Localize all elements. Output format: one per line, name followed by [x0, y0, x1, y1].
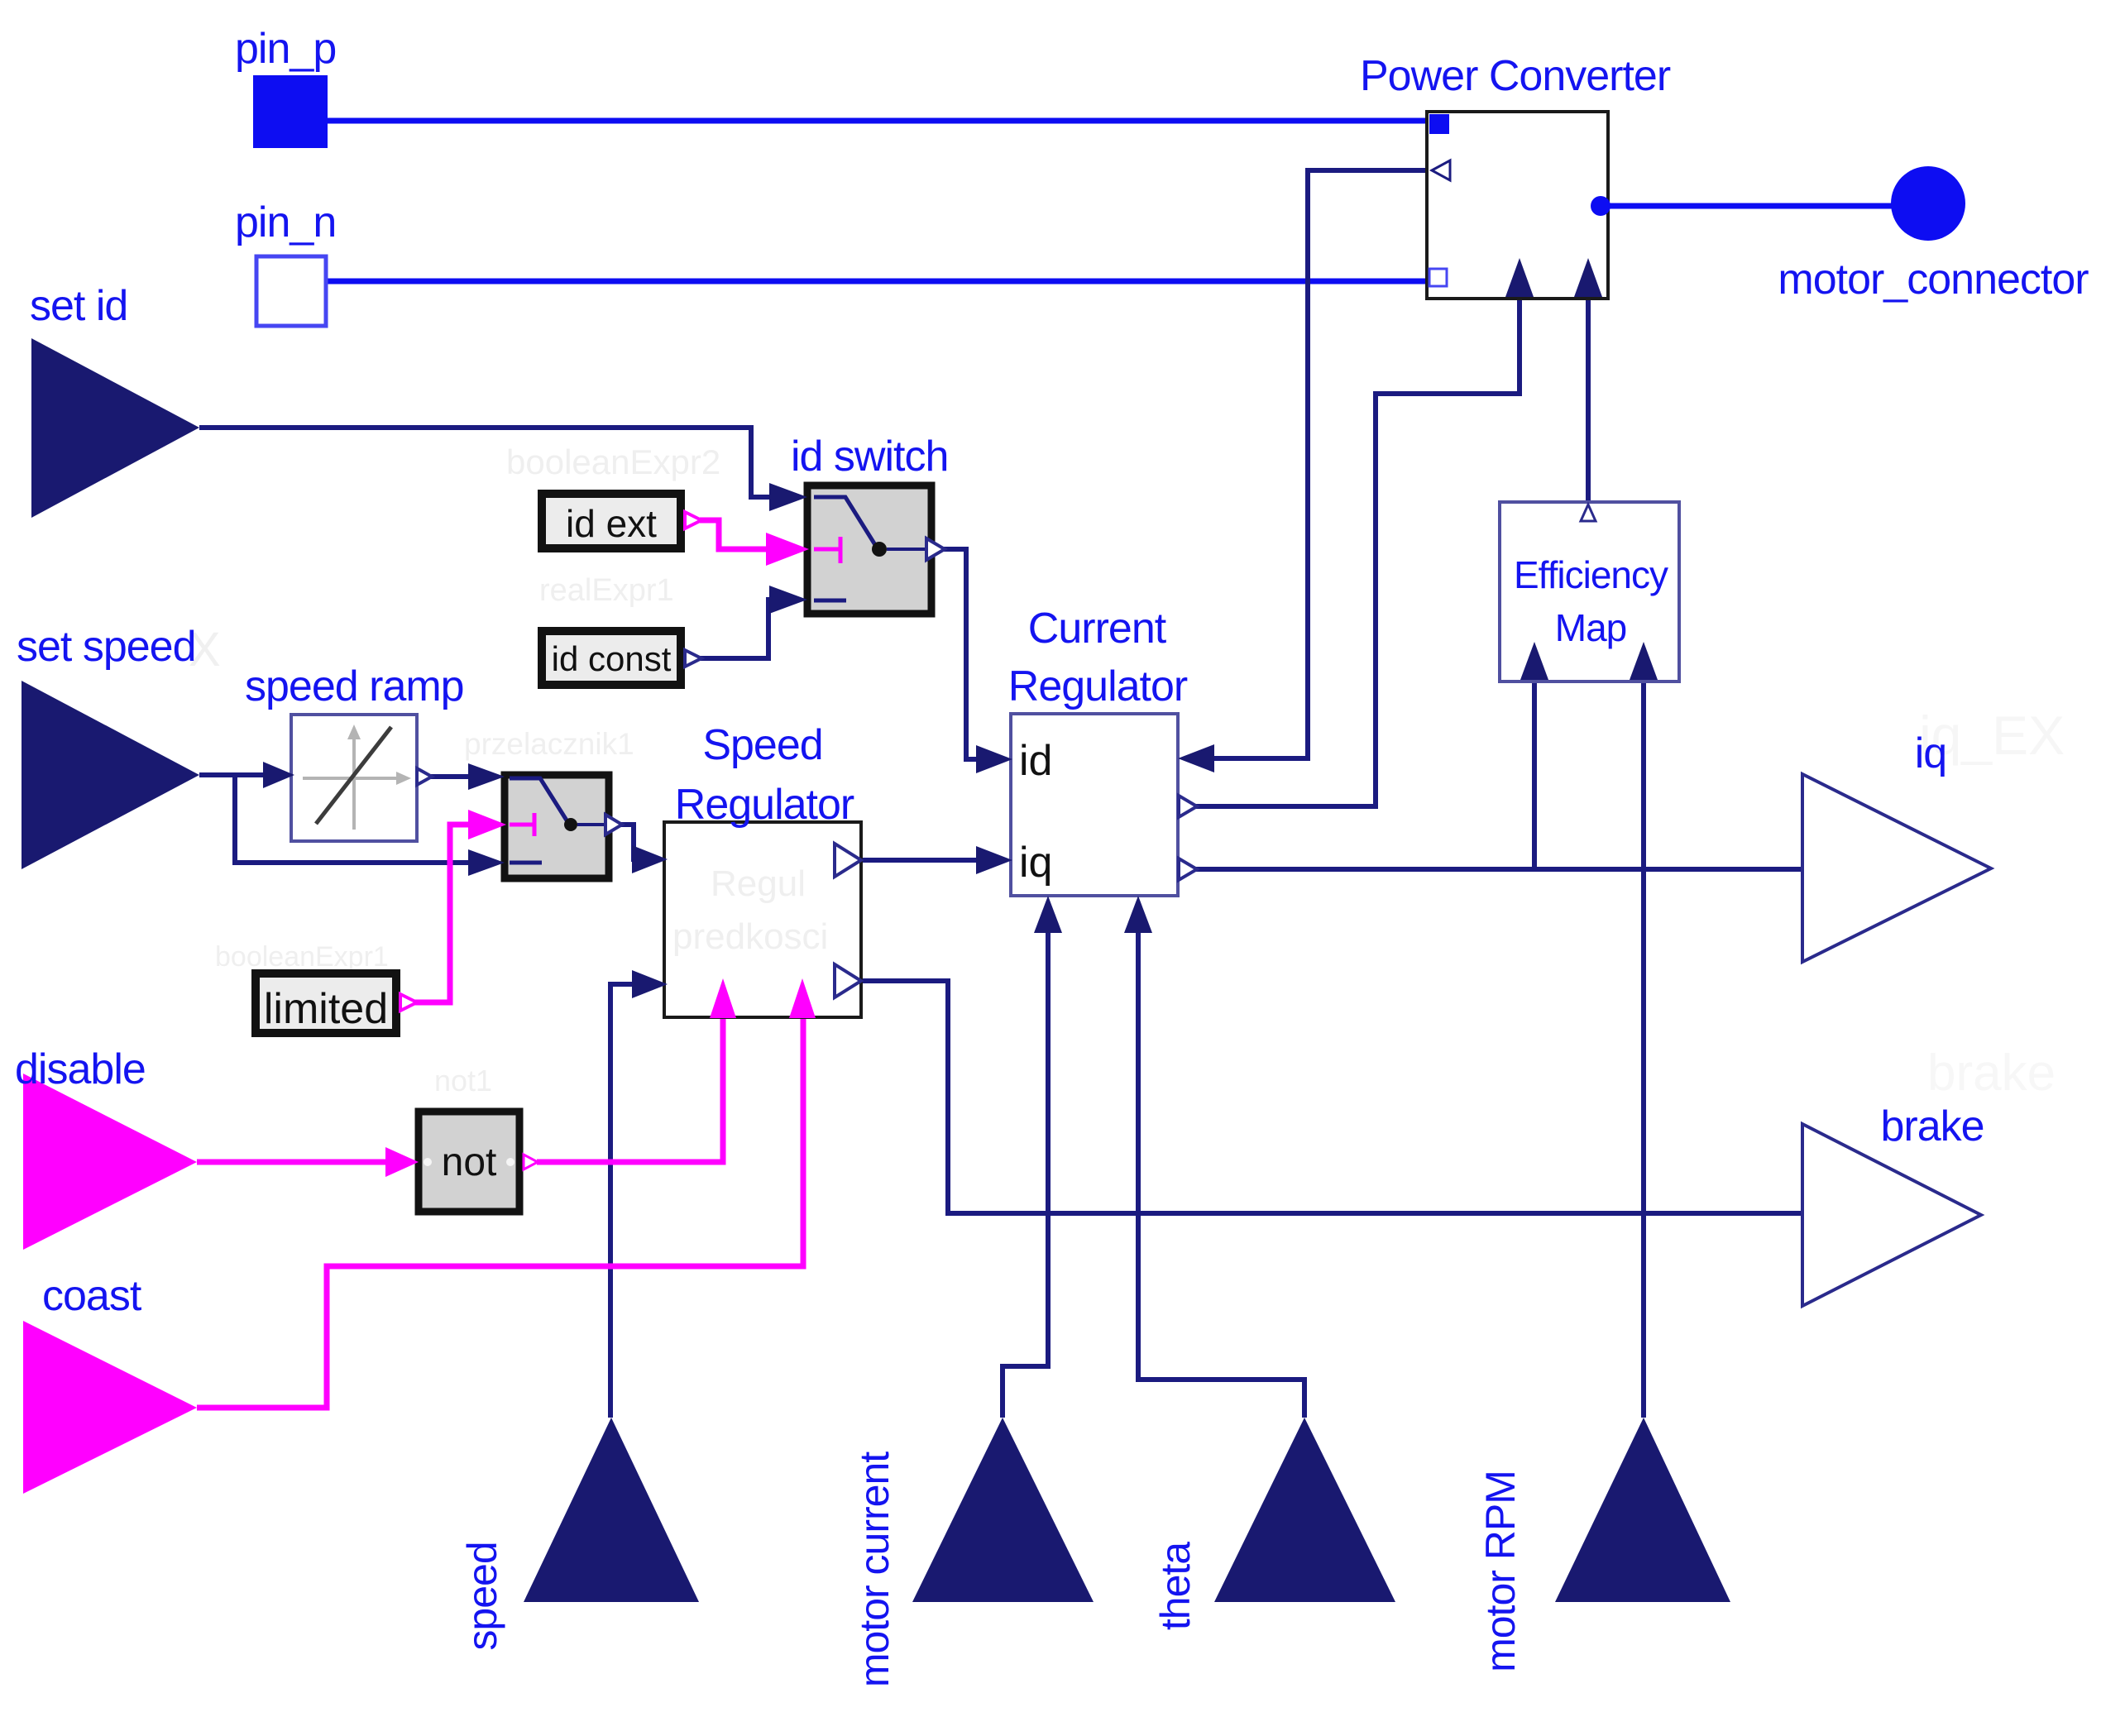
svg-text:motor current: motor current	[851, 1451, 897, 1687]
svg-text:booleanExpr1: booleanExpr1	[215, 941, 389, 973]
arrow into id switch middle input (magenta)	[766, 533, 809, 566]
svg-text:booleanExpr2: booleanExpr2	[506, 442, 720, 481]
block speed switch (gray box)	[505, 775, 609, 878]
port Speed Regulator output 2 (open triangle)	[835, 964, 861, 997]
wire speed to Speed Regulator lower-left input	[610, 984, 635, 1418]
svg-text:limited: limited	[264, 985, 388, 1033]
wire Power Converter left port to Current Regulator right input	[1208, 170, 1432, 758]
svg-text:motor RPM: motor RPM	[1477, 1471, 1524, 1672]
wire motor current to Current Regulator bottom input 1	[1003, 930, 1048, 1418]
wire id ext to id switch middle input	[700, 520, 769, 549]
port speed switch output (open triangle)	[605, 815, 622, 835]
port Current Regulator output 1 (open triangle)	[1179, 796, 1197, 817]
svg-text:przelacznik1: przelacznik1	[464, 727, 634, 761]
svg-text:Regulator: Regulator	[1008, 662, 1188, 710]
port id switch output (open triangle)	[926, 538, 945, 560]
svg-text:speed: speed	[459, 1542, 505, 1650]
block speed ramp	[291, 715, 417, 841]
wire disable to not input	[197, 1160, 389, 1165]
svg-text:realExpr1: realExpr1	[539, 573, 674, 608]
input connector speed (up triangle)	[524, 1418, 699, 1602]
arrow into Current Regulator bottom input 1 (up)	[1034, 896, 1062, 933]
wire motor RPM to Efficiency Map input 2	[1641, 681, 1646, 1418]
svg-text:motor_connector: motor_connector	[1778, 256, 2089, 304]
connector pin_p (filled square)	[253, 75, 328, 148]
input connector coast (magenta triangle)	[23, 1321, 197, 1494]
svg-text:speed ramp: speed ramp	[245, 662, 464, 710]
input connector motor RPM (up triangle)	[1555, 1418, 1730, 1602]
connector pin_n (open square)	[256, 256, 326, 326]
wire set speed to speed ramp input	[199, 772, 263, 777]
arrow into Current Regulator right input (pointing left)	[1178, 744, 1214, 772]
svg-text:id switch: id switch	[791, 433, 948, 481]
wire id const to id switch bottom input	[700, 600, 774, 658]
svg-text:Regulator: Regulator	[675, 781, 854, 829]
svg-text:set id: set id	[30, 282, 127, 330]
port Speed Regulator output 1 (open triangle)	[835, 844, 861, 877]
wire Power Converter bottom port 2 to Efficiency Map top port	[1586, 299, 1591, 506]
block Efficiency Map	[1500, 502, 1679, 681]
svg-text:Power Converter: Power Converter	[1360, 52, 1671, 100]
arrow into Speed Regulator bottom input 1 (magenta up)	[710, 978, 736, 1018]
svg-text:set speed: set speed	[17, 623, 196, 671]
svg-text:disable: disable	[15, 1045, 146, 1093]
arrow Power Converter bottom input 2	[1574, 258, 1602, 297]
svg-text:not: not	[442, 1141, 497, 1184]
port Efficiency Map top (open triangle)	[1581, 505, 1596, 521]
port Power Converter pin_p (filled square)	[1429, 114, 1449, 134]
svg-text:iq: iq	[1915, 729, 1946, 777]
arrow into Speed Regulator upper input	[632, 845, 668, 873]
wire Current Regulator iq output to iq connector	[1195, 867, 1804, 872]
wire set speed branch to speed switch bottom input	[235, 775, 473, 863]
input connector disable (magenta triangle)	[23, 1074, 197, 1250]
svg-text:Efficiency: Efficiency	[1514, 553, 1668, 596]
svg-text:brake: brake	[1880, 1102, 1984, 1150]
svg-text:Map: Map	[1555, 606, 1626, 649]
wire speed switch output to Speed Regulator input	[619, 825, 635, 859]
port id ext output (magenta open triangle)	[685, 512, 701, 528]
arrow into speed switch middle input (magenta)	[468, 810, 506, 839]
block limited (label box)	[256, 973, 396, 1033]
output connector iq (open triangle)	[1802, 774, 1991, 962]
arrow into not input (magenta)	[385, 1147, 419, 1177]
port not output (magenta open triangle)	[524, 1155, 538, 1169]
arrow into Speed Regulator bottom input 2 (magenta up)	[789, 978, 816, 1018]
output connector brake (open triangle)	[1802, 1124, 1981, 1306]
block not (gray box)	[419, 1112, 519, 1212]
wire Current Regulator output to Power Converter bottom port 1	[1195, 299, 1520, 806]
port limited output (magenta open triangle)	[400, 994, 417, 1011]
arrow into Current Regulator id input	[976, 745, 1012, 773]
wire Speed Regulator output to Current Regulator iq input	[863, 858, 981, 863]
svg-text:id const: id const	[552, 639, 672, 678]
port speed ramp output (open triangle)	[417, 768, 432, 785]
wire coast to Speed Regulator bottom input 2	[197, 1018, 803, 1408]
wire not output to Speed Regulator bottom input 1	[537, 1018, 723, 1162]
svg-text:pin_p: pin_p	[235, 25, 336, 73]
block id const (label box)	[542, 631, 681, 685]
svg-text:id: id	[1019, 737, 1052, 785]
svg-text:Regul: Regul	[711, 863, 806, 904]
arrow into speed switch bottom input	[468, 849, 505, 876]
svg-text:id ext: id ext	[566, 502, 657, 545]
svg-text:not1: not1	[434, 1064, 492, 1098]
block id switch (gray box)	[807, 485, 931, 614]
wire Power Converter to motor_connector	[1609, 203, 1893, 209]
arrow into id switch bottom input	[769, 586, 807, 614]
svg-text:brake: brake	[1927, 1045, 2056, 1102]
arrow Efficiency Map bottom input 1	[1520, 642, 1548, 680]
wire theta to Current Regulator bottom input 2	[1138, 930, 1304, 1418]
arrow into Speed Regulator lower input	[632, 970, 668, 998]
svg-text:pin_n: pin_n	[235, 198, 336, 246]
wire id switch output to Current Regulator id input	[941, 549, 981, 759]
wire pin_n to Power Converter	[327, 279, 1429, 285]
port Current Regulator output 2 (open triangle)	[1179, 858, 1197, 880]
wire pin_p to Power Converter	[328, 118, 1430, 124]
svg-text:predkosci: predkosci	[672, 916, 828, 957]
input connector set speed (filled triangle)	[22, 681, 199, 869]
arrow into speed ramp input	[263, 762, 294, 788]
arrow into Current Regulator iq input	[976, 846, 1012, 874]
port id const output (open triangle)	[685, 650, 701, 667]
svg-text:coast: coast	[42, 1272, 142, 1320]
connector motor_connector (filled circle)	[1891, 166, 1965, 241]
port Power Converter left (open triangle)	[1432, 160, 1450, 180]
input connector set id (filled triangle)	[31, 338, 199, 518]
block Current Regulator	[1011, 714, 1178, 896]
block Power Converter	[1427, 112, 1608, 299]
svg-text:iq: iq	[1019, 839, 1052, 887]
arrow Efficiency Map bottom input 2	[1630, 642, 1658, 680]
arrow into speed switch top input	[468, 763, 505, 790]
arrow Power Converter bottom input 1	[1505, 258, 1534, 297]
wire set id to id switch top input	[199, 428, 774, 497]
svg-text:theta: theta	[1152, 1542, 1199, 1630]
block Speed Regulator	[664, 822, 861, 1017]
wire speed ramp output to speed switch top input	[430, 774, 473, 779]
svg-text:Current: Current	[1028, 605, 1167, 653]
arrow into id switch top input	[769, 483, 807, 511]
wire Efficiency Map input 1 tap on iq line	[1532, 681, 1537, 869]
port Power Converter motor output (filled circle)	[1591, 196, 1611, 216]
arrow into Current Regulator bottom input 2 (up)	[1124, 896, 1152, 933]
wire Speed Regulator lower output to brake	[863, 981, 1804, 1213]
svg-text:Speed: Speed	[702, 721, 822, 769]
port Power Converter pin_n (open square)	[1429, 269, 1447, 286]
input connector theta (up triangle)	[1214, 1418, 1395, 1602]
block id ext (label box)	[542, 494, 681, 548]
wire limited to speed switch middle input	[414, 825, 473, 1002]
input connector motor current (up triangle)	[912, 1418, 1094, 1602]
